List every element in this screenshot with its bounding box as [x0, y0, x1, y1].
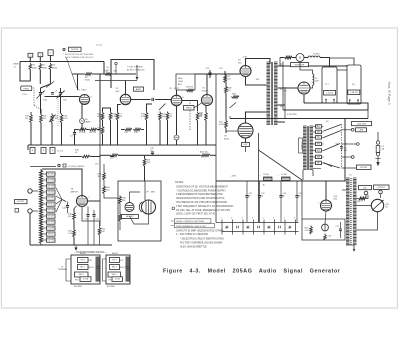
label C26 — [150, 148, 155, 153]
capacitor C1A — [37, 91, 45, 99]
svg-text:PRI 1: PRI 1 — [112, 260, 116, 262]
wire — [229, 116, 231, 119]
wire — [29, 57, 31, 61]
label C4 — [70, 136, 73, 138]
wire — [92, 73, 110, 75]
wire — [100, 154, 110, 156]
coupling wire — [131, 99, 151, 101]
resistor R20h — [110, 154, 118, 157]
terminal post — [28, 189, 32, 193]
label — [43, 116, 47, 121]
label — [119, 114, 123, 119]
wire — [176, 90, 178, 95]
figure caption — [163, 269, 340, 275]
label switch — [326, 121, 329, 123]
label V1 6SJ7 — [77, 90, 87, 92]
wire — [77, 74, 79, 90]
resistor R5 — [84, 73, 92, 76]
svg-text:R37 PNK: R37 PNK — [47, 240, 55, 242]
svg-text:R35 WHT: R35 WHT — [47, 222, 54, 224]
svg-text:C35: C35 — [267, 228, 270, 230]
transformer T2 secondary — [274, 62, 278, 124]
label — [162, 114, 167, 119]
label — [147, 160, 152, 165]
svg-text:C14: C14 — [95, 164, 98, 166]
svg-text:LINE: LINE — [359, 130, 364, 132]
svg-text:BLK-YL: BLK-YL — [89, 267, 95, 269]
label — [232, 94, 237, 96]
resistor R3A — [40, 114, 43, 123]
tube V8 — [77, 196, 88, 207]
wire — [103, 108, 111, 112]
svg-text:C5 .02: C5 .02 — [57, 151, 64, 153]
lamp P1 — [322, 224, 329, 231]
resistor divider chain R30-R37 — [40, 169, 43, 244]
svg-text:R30 GRN: R30 GRN — [47, 180, 55, 182]
wire — [39, 70, 41, 85]
resistor R17 — [124, 128, 132, 131]
svg-text:3 SET FREQUENCY RANGE AT 4 K: 3 SET FREQUENCY RANGE AT 4 KC TRANSMISSI… — [176, 205, 234, 208]
label OUTPUT box — [15, 200, 28, 204]
metering box — [302, 219, 345, 240]
wire — [97, 74, 100, 130]
label S1 note — [22, 94, 27, 96]
label — [98, 174, 103, 179]
resistor R15b — [101, 126, 104, 135]
wire — [312, 62, 314, 75]
wire — [103, 164, 105, 172]
svg-text:+ 345V: + 345V — [230, 176, 237, 178]
potentiometer R4 — [49, 114, 56, 123]
wire — [119, 204, 121, 214]
label — [328, 236, 333, 238]
wire — [206, 74, 208, 95]
label V4 6SJ7 — [202, 88, 208, 93]
label — [55, 116, 60, 121]
transformer T2 primary — [267, 62, 271, 124]
wire — [225, 74, 227, 86]
label B1 — [325, 84, 329, 86]
switch contact arrow — [324, 163, 333, 167]
wire — [303, 94, 305, 103]
wire — [310, 85, 313, 88]
label C10 — [206, 68, 211, 70]
label V1 pin — [91, 97, 92, 99]
wire — [284, 66, 286, 122]
label T3 vertical — [299, 138, 303, 153]
wire — [159, 120, 161, 145]
detail title — [74, 251, 107, 254]
wire — [312, 170, 314, 176]
label B heat — [287, 114, 297, 116]
detail T3 sec box — [78, 265, 95, 270]
wire — [32, 191, 38, 211]
wire — [144, 181, 146, 200]
svg-text:40: 40 — [283, 196, 285, 198]
svg-text:470K: 470K — [219, 124, 224, 126]
wire — [41, 88, 59, 126]
wire vertical x285 — [284, 88, 286, 119]
svg-text:LEVEL, LIGHT ON, FIRST SEC: LEVEL, LIGHT ON, FIRST SEC AT 40 — [176, 213, 216, 216]
resistor R1 — [29, 63, 32, 70]
label V10 pin — [319, 203, 320, 205]
wire — [367, 110, 369, 119]
svg-text:POWER: POWER — [300, 142, 302, 150]
wire — [88, 209, 94, 211]
label — [101, 229, 106, 234]
svg-text:OUTLET: OUTLET — [360, 167, 368, 169]
wire — [42, 169, 82, 196]
terminal post — [28, 209, 32, 213]
wire — [345, 180, 346, 182]
label tap3 — [315, 151, 316, 153]
wire — [117, 120, 119, 145]
label C25 — [299, 193, 302, 198]
wire — [280, 58, 283, 111]
label L5 — [315, 78, 319, 83]
capacitor C1B — [57, 91, 65, 99]
resistor R2 — [39, 63, 42, 70]
wire — [144, 166, 146, 181]
resistor R17v — [116, 112, 119, 121]
resistor R21v — [166, 112, 169, 121]
label — [199, 113, 204, 118]
label L2 — [263, 174, 269, 176]
svg-text:BLK-RED: BLK-RED — [74, 286, 82, 288]
terminal strip capacitors — [226, 226, 291, 229]
svg-text:SEC 1: SEC 1 — [80, 267, 85, 269]
wire vertical x100 — [99, 130, 101, 157]
switch S1A wiper arrow — [46, 82, 54, 88]
svg-text:450K: 450K — [52, 67, 57, 69]
label V3 6SJ7 — [169, 88, 180, 90]
capacitor C17 — [92, 210, 95, 245]
svg-text:7: 7 — [319, 203, 320, 205]
svg-text:FREQ: FREQ — [186, 107, 192, 109]
resistor R16b — [109, 112, 112, 121]
wire feedback line — [60, 156, 81, 158]
wire — [225, 93, 227, 120]
svg-text:ADJ POSITION SETTING MAX: ADJ POSITION SETTING MAX — [65, 53, 94, 56]
switch contact — [342, 143, 360, 146]
label V8 pin — [89, 197, 90, 199]
wire — [215, 181, 217, 223]
wire — [73, 220, 75, 229]
svg-text:TH4 BRN: TH4 BRN — [47, 228, 55, 230]
label B2 type — [348, 90, 360, 95]
label 6.3V — [243, 57, 248, 59]
svg-text:PRI 2: PRI 2 — [75, 280, 79, 282]
label L3 — [281, 174, 287, 176]
ballast box B2 — [347, 65, 361, 104]
svg-text:3: 3 — [242, 217, 243, 219]
transformer T3 primary — [303, 126, 307, 170]
svg-text:5Y3: 5Y3 — [280, 89, 283, 91]
label C16 — [85, 219, 88, 221]
main lower bus — [28, 144, 216, 146]
resistor R40 — [73, 212, 76, 220]
svg-text:L3 8H: L3 8H — [281, 174, 287, 176]
resistor R49 — [284, 56, 292, 59]
switch contact label S1A-3 — [48, 50, 53, 56]
label — [125, 132, 130, 134]
svg-text:6SJ7: 6SJ7 — [174, 88, 180, 90]
label — [134, 132, 139, 134]
wire — [325, 211, 326, 224]
note circle marker — [172, 207, 175, 210]
label — [344, 148, 348, 152]
svg-text:R34 GRY: R34 GRY — [47, 216, 55, 218]
svg-text:* SELECTRICAL RELAY IDENTIF: * SELECTRICAL RELAY IDENTIFICATION — [180, 238, 224, 241]
wire — [104, 194, 118, 199]
resistor R28 — [205, 112, 208, 121]
wire — [155, 99, 171, 101]
label lad1 — [225, 228, 228, 230]
label C27 — [336, 226, 339, 228]
note label NOTES — [69, 47, 82, 51]
wire — [357, 205, 372, 207]
tube V9 eye — [139, 200, 155, 214]
resistor R19 — [145, 112, 148, 121]
pin — [325, 99, 327, 101]
tube V3 — [171, 95, 182, 106]
wire — [342, 130, 352, 157]
label — [228, 88, 233, 93]
svg-text:TUNE: TUNE — [13, 64, 19, 66]
svg-text:40: 40 — [299, 196, 301, 198]
label R8 — [90, 132, 97, 134]
svg-text:8: 8 — [294, 217, 295, 219]
svg-text:320: 320 — [280, 106, 283, 108]
wire — [377, 132, 379, 141]
detail T4 sec2 box — [108, 272, 123, 282]
wire — [102, 134, 104, 145]
svg-text:OUTPUT: OUTPUT — [17, 201, 25, 203]
wire — [350, 100, 358, 104]
note text — [65, 53, 94, 59]
svg-text:BLACK: BLACK — [80, 252, 87, 255]
svg-text:1M: 1M — [98, 176, 101, 178]
gang linkage (dashed) — [34, 88, 40, 110]
label det — [95, 164, 98, 166]
wire — [167, 120, 169, 145]
wire — [226, 131, 246, 152]
wire — [20, 62, 30, 82]
capacitor C line — [340, 147, 343, 149]
wire — [325, 181, 327, 200]
wire — [300, 62, 313, 75]
label 205 — [230, 176, 237, 178]
notes boxed callout — [174, 219, 211, 223]
switch contact label S1A-1 — [28, 53, 33, 57]
svg-text:C2 .01: C2 .01 — [96, 45, 103, 47]
label L4 — [313, 54, 320, 56]
label — [68, 214, 73, 219]
switch S4 wiper — [62, 200, 66, 202]
capacitor C22 — [245, 181, 248, 223]
svg-text:C-4B 128: C-4B 128 — [350, 92, 358, 94]
tube V7 — [298, 82, 310, 94]
wire — [176, 106, 178, 135]
divider tap labels — [43, 172, 56, 242]
B plus bus — [216, 180, 345, 182]
voltage box left — [111, 60, 154, 91]
label tap2 — [315, 136, 318, 138]
label — [186, 87, 193, 89]
terminal — [364, 191, 368, 195]
wire — [81, 123, 83, 129]
terminal lug numbers — [221, 217, 296, 219]
resistor R24 — [196, 112, 199, 121]
fuse F1 — [376, 141, 380, 156]
resistor R18 — [133, 128, 141, 131]
svg-text:450K: 450K — [32, 67, 37, 69]
label — [112, 114, 117, 119]
ground — [74, 245, 77, 251]
svg-text:M: M — [299, 57, 301, 60]
label — [305, 228, 310, 233]
resistor R42 — [98, 227, 101, 236]
label — [141, 114, 146, 119]
wire — [246, 112, 267, 123]
polarity plus — [260, 175, 280, 177]
label — [64, 116, 69, 121]
svg-text:Sect. IV Page 0: Sect. IV Page 0 — [387, 82, 391, 105]
svg-text:AMPLIF: AMPLIF — [71, 190, 79, 193]
wire — [301, 181, 303, 219]
notes arrow marker — [171, 221, 174, 226]
wire — [118, 105, 121, 112]
capacitor C25 — [295, 181, 298, 223]
svg-text:PERFORMANCE CHECK OUT: PERFORMANCE CHECK OUT — [176, 225, 207, 228]
wire — [27, 145, 29, 150]
wire — [197, 121, 199, 146]
switch arrow S1D — [230, 103, 237, 109]
wire — [99, 221, 101, 245]
label C17 — [96, 219, 99, 221]
switch S2 blade — [324, 163, 341, 168]
switch S2 blade — [324, 131, 342, 138]
wire — [121, 129, 144, 131]
switch S1C arrow — [159, 104, 166, 111]
ballast box B1 — [322, 67, 337, 103]
inductor L4 RFC — [308, 56, 320, 57]
label R7 — [79, 132, 86, 134]
svg-text:0: 0 — [315, 151, 316, 153]
svg-text:AT ANY OF ABOVE: AT ANY OF ABOVE — [127, 68, 145, 71]
svg-text:1M: 1M — [97, 116, 100, 118]
notes boxed callout 2 — [174, 223, 214, 227]
label meter box — [291, 63, 309, 67]
svg-text:BLK-YL: BLK-YL — [120, 267, 126, 269]
label lad4 — [288, 228, 291, 230]
node — [341, 149, 343, 151]
target indicator — [125, 203, 134, 212]
svg-text:6: 6 — [273, 217, 274, 219]
svg-text:R7 220: R7 220 — [79, 132, 86, 134]
svg-text:ALSO GMA DE BRETTLE: ALSO GMA DE BRETTLE — [180, 245, 207, 248]
choke L2 — [264, 177, 273, 181]
label black top 2 — [112, 252, 119, 255]
eye tube box — [118, 181, 161, 241]
wire — [60, 88, 62, 93]
wire — [51, 123, 53, 146]
label — [104, 71, 118, 73]
svg-text:3: 3 — [50, 52, 51, 54]
tube V2 — [120, 94, 130, 104]
svg-text:TH3 ORN: TH3 ORN — [47, 210, 55, 212]
label — [106, 187, 111, 192]
potentiometer R51 — [371, 199, 383, 211]
svg-text:C-16 128: C-16 128 — [326, 92, 333, 94]
svg-text:AMPL: AMPL — [136, 88, 142, 91]
ground arrow — [353, 245, 355, 252]
label B1 type — [324, 91, 336, 96]
legend symbols — [58, 164, 66, 167]
wire — [278, 121, 286, 123]
svg-text:1M: 1M — [25, 118, 28, 120]
resistor R3 — [49, 63, 52, 70]
wire — [144, 155, 146, 157]
wire — [147, 104, 153, 112]
wire — [130, 192, 141, 203]
wire — [40, 70, 50, 89]
transformer T4 core — [351, 178, 352, 245]
svg-text:2: 2 — [231, 217, 232, 219]
legend line — [30, 166, 56, 168]
label output box 2 — [374, 185, 390, 190]
detail T4 pri box — [110, 258, 125, 263]
label AMPL — [134, 87, 144, 91]
label FREQ RANGE — [21, 86, 32, 91]
svg-text:S1 FREQ RANGE: S1 FREQ RANGE — [68, 165, 85, 168]
svg-text:350: 350 — [256, 79, 259, 81]
wire — [330, 58, 355, 65]
svg-text:L4 RFC: L4 RFC — [313, 54, 320, 56]
label blk-red 2 — [107, 286, 115, 288]
wire — [301, 180, 303, 219]
label plate — [256, 79, 259, 81]
wire — [210, 154, 216, 156]
wire heater run — [230, 118, 368, 120]
resistor R10b — [104, 73, 112, 76]
wire long vertical — [215, 74, 217, 181]
label V9 6E5 — [146, 192, 156, 194]
wire — [81, 104, 83, 119]
svg-text:GRY: GRY — [317, 162, 320, 164]
svg-text:115: 115 — [315, 136, 318, 138]
wire — [130, 214, 149, 224]
svg-text:LEVEL CONTROL SETTING: LEVEL CONTROL SETTING — [176, 221, 204, 223]
svg-text:R50: R50 — [357, 201, 360, 203]
svg-text:.005: .005 — [344, 150, 348, 152]
label black top — [80, 252, 87, 255]
wire — [88, 200, 101, 202]
svg-text:115V-230V: 115V-230V — [357, 123, 367, 125]
ground bus — [30, 244, 112, 246]
tube V10 — [321, 200, 332, 211]
resistor R50 — [358, 197, 366, 200]
label RT1 — [85, 119, 91, 124]
label C23 — [261, 193, 264, 198]
feedback wire — [110, 156, 114, 158]
capacitor C26 — [151, 152, 154, 155]
wire — [99, 157, 101, 227]
lamp RT2 — [174, 135, 179, 140]
wire — [278, 65, 348, 66]
wire grid line — [45, 96, 80, 98]
label C22 — [249, 193, 252, 198]
